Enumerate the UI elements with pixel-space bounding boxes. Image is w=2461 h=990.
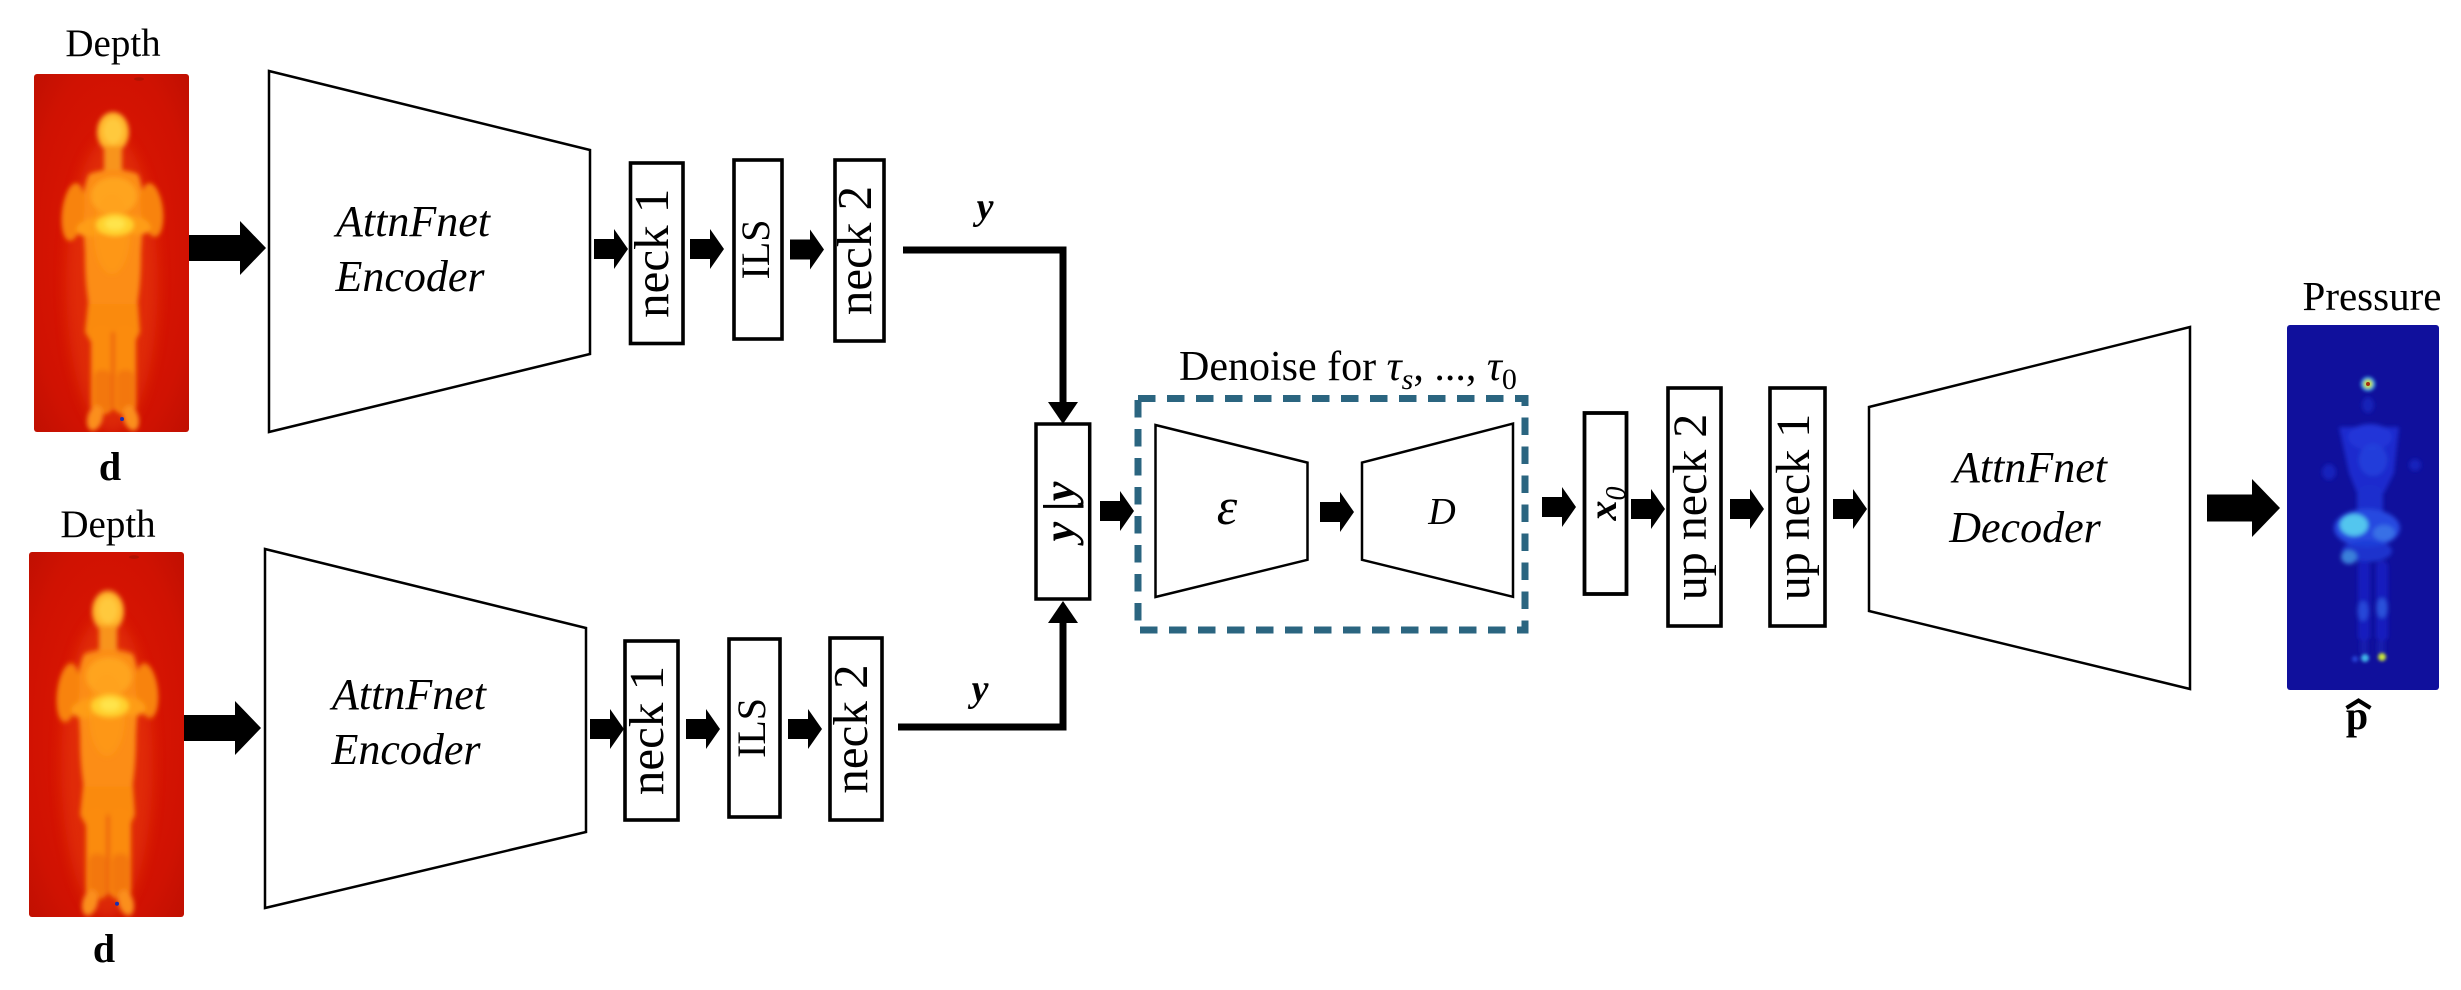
arrowhead down into y|y xyxy=(1048,402,1078,424)
svg-text:neck 2: neck 2 xyxy=(823,664,878,793)
arrow neck1 to ILS (bottom) xyxy=(686,709,720,749)
svg-text:Denoise for τs, ..., τ0: Denoise for τs, ..., τ0 xyxy=(1179,344,1517,396)
svg-text:Encoder: Encoder xyxy=(334,252,485,301)
svg-text:ε: ε xyxy=(1217,479,1238,536)
svg-text:Decoder: Decoder xyxy=(1948,503,2101,552)
arrow y|y to denoise xyxy=(1100,491,1134,531)
svg-text:Depth: Depth xyxy=(65,22,160,65)
wire y (bottom) xyxy=(898,622,1063,727)
svg-text:AttnFnet: AttnFnet xyxy=(333,197,492,246)
box up neck 1 xyxy=(1770,388,1825,626)
depth image d (top) xyxy=(34,74,189,433)
big arrow depth to encoder (bottom) xyxy=(184,701,261,755)
arrow up neck 1 to decoder xyxy=(1833,489,1867,529)
arrow encoder to neck1 (top) xyxy=(594,229,628,269)
arrow up neck 2 to up neck 1 xyxy=(1730,489,1764,529)
box y|y concat xyxy=(1036,424,1090,599)
svg-text:y: y xyxy=(968,668,989,710)
svg-text:neck 1: neck 1 xyxy=(619,666,674,795)
box neck 2 (top) xyxy=(835,160,884,341)
svg-text:y: y xyxy=(973,186,994,228)
svg-text:d: d xyxy=(99,444,121,489)
encoder E trapezoid xyxy=(1156,425,1308,597)
box up neck 2 xyxy=(1668,388,1721,626)
arrow ILS to neck2 (bottom) xyxy=(788,709,822,749)
svg-text:neck 2: neck 2 xyxy=(827,186,882,315)
arrow x0 to up neck 2 xyxy=(1631,489,1665,529)
box ILS (bottom) xyxy=(729,639,780,817)
svg-text:Depth: Depth xyxy=(60,503,155,546)
box neck 2 (bottom) xyxy=(830,638,882,820)
pressure image p-hat xyxy=(2287,325,2439,690)
arrow encoder to neck1 (bottom) xyxy=(590,709,624,749)
arrowhead up into y|y xyxy=(1048,601,1078,623)
AttnFnet Decoder trapezoid xyxy=(1869,327,2190,689)
svg-text:Encoder: Encoder xyxy=(330,725,481,774)
svg-text:up neck 1: up neck 1 xyxy=(1767,414,1820,601)
svg-text:AttnFnet: AttnFnet xyxy=(329,670,488,719)
wire y (top) xyxy=(903,250,1063,406)
svg-text:y |y: y |y xyxy=(1035,481,1084,546)
svg-text:D: D xyxy=(1427,491,1455,533)
svg-text:ILS: ILS xyxy=(733,220,778,280)
arrow denoise to x0 xyxy=(1542,487,1576,527)
box neck 1 (top) xyxy=(631,163,684,344)
svg-text:AttnFnet: AttnFnet xyxy=(1950,443,2109,492)
decoder D trapezoid xyxy=(1362,424,1513,597)
AttnFnet Encoder trapezoid (top) xyxy=(269,71,590,432)
box neck 1 (bottom) xyxy=(625,641,678,820)
svg-text:ILS: ILS xyxy=(729,698,774,758)
svg-text:neck 1: neck 1 xyxy=(624,189,679,318)
arrow neck1 to ILS (top) xyxy=(690,229,724,269)
svg-text:up neck 2: up neck 2 xyxy=(1664,414,1717,601)
box ILS (top) xyxy=(734,160,782,339)
arrow ILS to neck2 (top) xyxy=(790,230,824,270)
dashed denoise box xyxy=(1138,399,1525,631)
box x0 xyxy=(1585,413,1627,594)
svg-text:d: d xyxy=(93,926,115,971)
arrow E to D xyxy=(1320,492,1354,532)
big arrow depth to encoder (top) xyxy=(189,221,266,275)
AttnFnet Encoder trapezoid (bottom) xyxy=(265,549,586,908)
svg-text:Pressure: Pressure xyxy=(2303,273,2442,319)
big arrow decoder to pressure xyxy=(2207,479,2280,537)
depth image d (bottom) xyxy=(29,552,184,918)
